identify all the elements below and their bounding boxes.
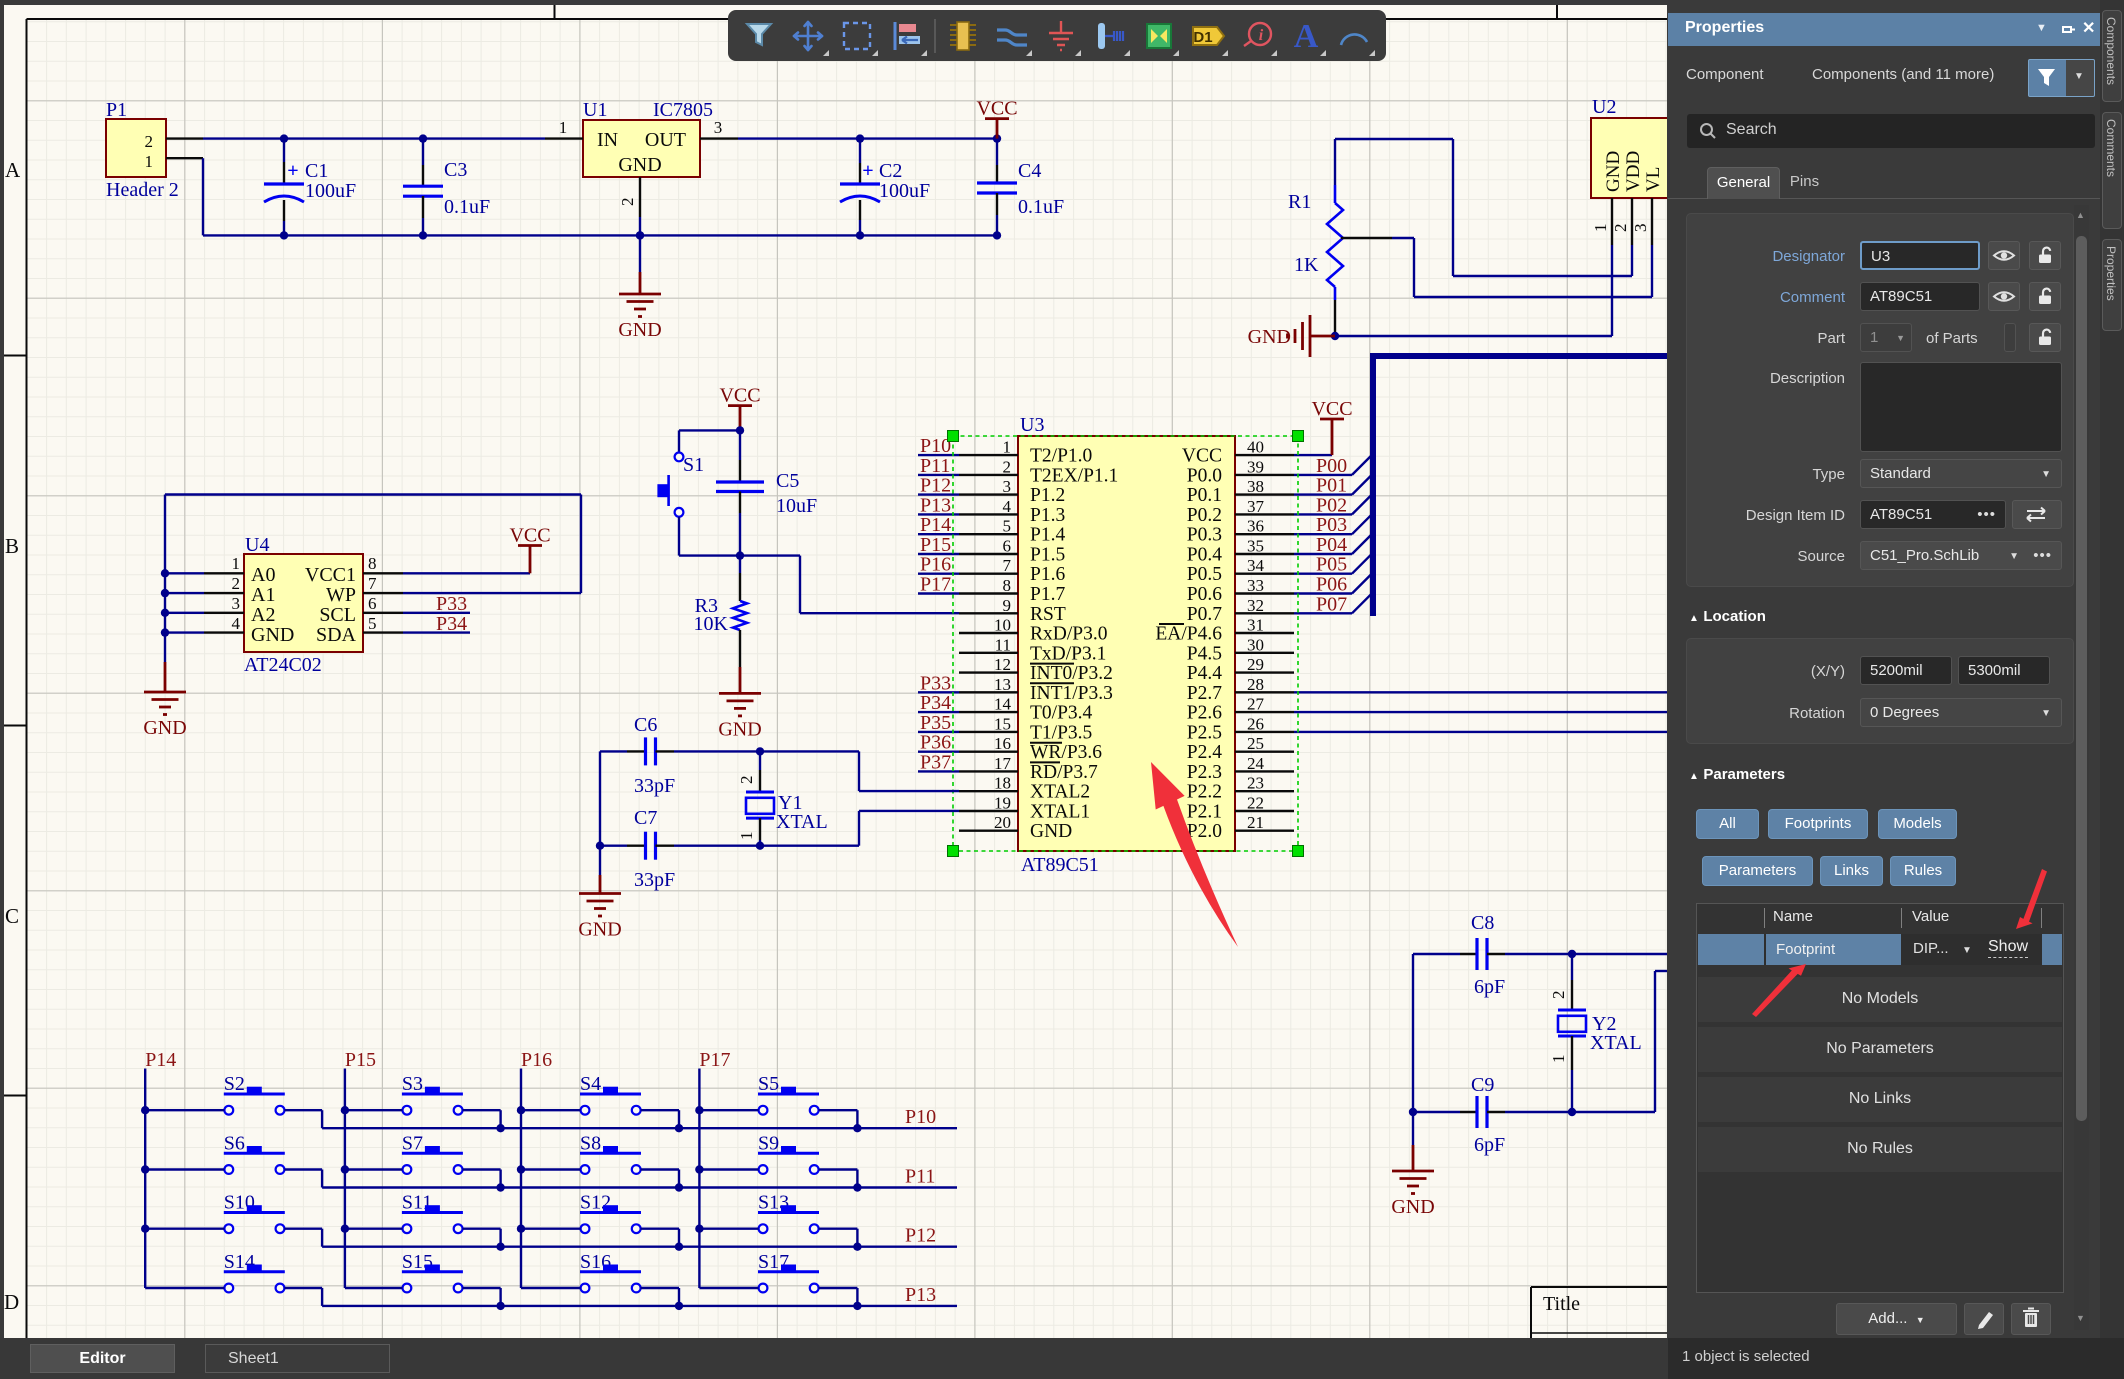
svg-text:2: 2 [1003, 457, 1012, 476]
svg-text:P2.1: P2.1 [1187, 802, 1222, 823]
svg-text:Title: Title [1543, 1293, 1580, 1315]
node S1/C5/R3 [736, 551, 744, 559]
svg-text:GND: GND [618, 319, 661, 341]
capacitor C6 [600, 714, 760, 797]
svg-text:VCC: VCC [1182, 446, 1222, 467]
svg-text:1: 1 [737, 832, 756, 841]
pin 2 of U1 [618, 177, 644, 240]
svg-text:25: 25 [1247, 734, 1264, 753]
svg-text:IN: IN [597, 129, 618, 151]
svg-text:P2.3: P2.3 [1187, 762, 1222, 783]
svg-text:P4.4: P4.4 [1187, 663, 1222, 684]
svg-text:33pF: 33pF [634, 775, 675, 797]
column wire net P16 [517, 1049, 552, 1288]
svg-text:1: 1 [232, 554, 241, 573]
row wire net P12 [322, 1225, 957, 1251]
switch S5 [699, 1073, 857, 1128]
svg-text:P15: P15 [920, 534, 951, 556]
capacitor C3 [403, 134, 490, 239]
wire P2.7 [1294, 691, 1667, 693]
row wire net P10 [322, 1106, 957, 1132]
svg-text:P13: P13 [920, 494, 951, 516]
svg-text:1K: 1K [1294, 254, 1319, 276]
svg-text:C7: C7 [634, 807, 657, 829]
svg-text:P36: P36 [920, 732, 951, 754]
svg-text:P10: P10 [920, 435, 951, 457]
svg-text:A2: A2 [251, 604, 275, 626]
svg-text:3: 3 [232, 594, 241, 613]
svg-text:6: 6 [368, 594, 377, 613]
svg-text:A1: A1 [251, 584, 275, 606]
svg-text:i: i [1258, 27, 1263, 44]
power port VCC at U3 pin40 [1294, 398, 1353, 455]
svg-text:U1: U1 [583, 99, 607, 121]
IC U3 AT89C51 body [1018, 414, 1235, 876]
svg-text:100uF: 100uF [879, 180, 930, 202]
svg-text:U2: U2 [1592, 96, 1616, 118]
svg-text:XTAL: XTAL [1590, 1032, 1642, 1054]
ground at R1 [1248, 315, 1340, 357]
ground below U4 [143, 662, 186, 739]
svg-text:T2EX/P1.1: T2EX/P1.1 [1030, 465, 1118, 486]
wire U4 address pins to ground [161, 495, 204, 663]
resistor R1 (rheostat) [1288, 139, 1343, 336]
ground below R3 [718, 693, 761, 740]
pin 2 of U2 [1611, 198, 1632, 245]
net label P34 wire [403, 613, 470, 635]
svg-text:VCC: VCC [976, 98, 1017, 120]
svg-text:GND: GND [1248, 326, 1291, 348]
switch S10 [145, 1192, 322, 1247]
svg-text:S1: S1 [683, 454, 704, 476]
svg-text:1: 1 [145, 152, 154, 171]
wire Y1 bottom to XTAL1 [760, 811, 959, 846]
svg-text:21: 21 [1247, 813, 1264, 832]
wire U1 OUT to VCC [738, 137, 997, 139]
switch S12 [521, 1192, 679, 1247]
switch S9 [699, 1133, 857, 1188]
svg-text:P17: P17 [699, 1049, 730, 1071]
svg-text:P14: P14 [920, 514, 951, 536]
svg-text:14: 14 [994, 695, 1012, 714]
svg-text:37: 37 [1247, 497, 1265, 516]
svg-text:S8: S8 [580, 1133, 601, 1155]
svg-text:C1: C1 [305, 160, 328, 182]
wire C8/C9 to ground [1409, 954, 1417, 1171]
switch S16 [521, 1251, 679, 1306]
switch S1 [657, 430, 740, 555]
switch S7 [345, 1133, 501, 1188]
svg-text:SDA: SDA [316, 624, 357, 646]
crystal Y1 [737, 747, 828, 850]
svg-text:8: 8 [368, 554, 377, 573]
svg-text:B: B [5, 534, 19, 558]
red annotation arrow at U3 [1151, 762, 1238, 947]
svg-text:A: A [1293, 18, 1318, 55]
svg-text:6pF: 6pF [1474, 976, 1505, 998]
svg-text:3: 3 [1003, 477, 1012, 496]
svg-text:C9: C9 [1471, 1074, 1494, 1096]
svg-text:P2.4: P2.4 [1187, 742, 1222, 763]
svg-text:P11: P11 [905, 1166, 935, 1188]
svg-text:P16: P16 [920, 554, 951, 576]
wire VCC to S1 [679, 426, 744, 434]
svg-text:35: 35 [1247, 537, 1264, 556]
svg-text:22: 22 [1247, 794, 1264, 813]
svg-text:P0.7: P0.7 [1187, 604, 1222, 625]
capacitor C5 [716, 430, 817, 555]
svg-text:1: 1 [559, 118, 568, 137]
power port VCC at U1 output [976, 98, 1017, 139]
svg-text:29: 29 [1247, 655, 1264, 674]
svg-text:OUT: OUT [645, 129, 686, 151]
svg-text:P33: P33 [920, 672, 951, 694]
svg-text:7: 7 [368, 574, 377, 593]
pin 3 of U1 [700, 118, 738, 139]
capacitor C8 [1413, 912, 1667, 998]
svg-text:TxD/P3.1: TxD/P3.1 [1030, 643, 1106, 664]
svg-text:6: 6 [1003, 537, 1012, 556]
svg-text:P1.4: P1.4 [1030, 525, 1065, 546]
voltage regulator U1 IC7805 [583, 99, 713, 177]
svg-text:20: 20 [994, 813, 1011, 832]
svg-text:VL: VL [1643, 167, 1664, 192]
svg-text:R1: R1 [1288, 191, 1311, 213]
svg-text:RST: RST [1030, 604, 1066, 625]
svg-text:15: 15 [994, 714, 1011, 733]
svg-text:P1.6: P1.6 [1030, 564, 1065, 585]
svg-text:P15: P15 [345, 1049, 376, 1071]
svg-text:VCC: VCC [509, 525, 550, 547]
wire R1 top to U2 VDD [1335, 139, 1632, 276]
svg-text:RxD/P3.0: RxD/P3.0 [1030, 624, 1107, 645]
column wire net P15 [341, 1049, 376, 1288]
svg-text:INT0/P3.2: INT0/P3.2 [1030, 663, 1113, 684]
svg-text:40: 40 [1247, 438, 1264, 457]
wire Y2 right riser [1655, 971, 1667, 1112]
svg-text:P17: P17 [920, 574, 951, 596]
svg-text:1: 1 [1591, 224, 1610, 233]
svg-text:T0/P3.4: T0/P3.4 [1030, 703, 1093, 724]
svg-text:VDD: VDD [1623, 151, 1644, 192]
wire Y1 top to XTAL2 [760, 751, 959, 791]
svg-text:A0: A0 [251, 564, 275, 586]
pins right of U4 [363, 554, 403, 633]
svg-text:2: 2 [1611, 224, 1630, 233]
svg-text:GND: GND [1603, 151, 1624, 192]
left pins 1-20 of U3 [959, 438, 1118, 843]
svg-text:26: 26 [1247, 714, 1264, 733]
capacitor C9 [1413, 1074, 1655, 1156]
svg-text:P11: P11 [920, 455, 950, 477]
svg-text:P2.5: P2.5 [1187, 722, 1222, 743]
svg-text:IC7805: IC7805 [653, 99, 713, 121]
crystal Y2 [1549, 950, 1642, 1116]
svg-text:P00: P00 [1316, 455, 1347, 477]
svg-text:AT24C02: AT24C02 [244, 654, 322, 676]
capacitor C2 [840, 134, 930, 239]
svg-text:C8: C8 [1471, 912, 1494, 934]
svg-text:P14: P14 [145, 1049, 176, 1071]
svg-text:SCL: SCL [319, 604, 356, 626]
svg-text:WR/P3.6: WR/P3.6 [1030, 742, 1102, 763]
svg-text:C: C [5, 904, 19, 928]
svg-text:P01: P01 [1316, 475, 1347, 497]
wire WP loop [165, 495, 581, 594]
wire R1 wiper to U2 VL [1341, 238, 1652, 297]
pin 1 of P1 [166, 157, 203, 159]
svg-text:P0.3: P0.3 [1187, 525, 1222, 546]
svg-text:27: 27 [1247, 695, 1265, 714]
power port VCC at U4 [403, 525, 551, 574]
svg-text:P37: P37 [920, 751, 951, 773]
svg-text:10: 10 [994, 616, 1011, 635]
svg-text:2: 2 [737, 776, 756, 785]
svg-text:AT89C51: AT89C51 [1021, 854, 1099, 876]
IC U2 [1591, 96, 1686, 198]
pin 3 of U2 [1631, 198, 1652, 245]
wire U2 pin4 [1669, 245, 1671, 258]
svg-text:GND: GND [718, 718, 761, 740]
svg-text:12: 12 [994, 655, 1011, 674]
row wire net P11 [322, 1166, 957, 1192]
svg-text:T2/P1.0: T2/P1.0 [1030, 446, 1092, 467]
capacitor C7 [600, 807, 760, 891]
svg-text:28: 28 [1247, 675, 1264, 694]
svg-text:+: + [287, 160, 298, 182]
svg-text:30: 30 [1247, 635, 1264, 654]
svg-text:P1.7: P1.7 [1030, 584, 1065, 605]
svg-text:P02: P02 [1316, 494, 1347, 516]
svg-text:S6: S6 [224, 1133, 245, 1155]
row wire net P13 [322, 1284, 957, 1310]
wire to RST pin [740, 556, 959, 614]
switch S4 [521, 1073, 679, 1128]
capacitor C1 [264, 134, 356, 239]
svg-text:XTAL1: XTAL1 [1030, 802, 1090, 823]
pin 4 of U2 [1669, 198, 1671, 245]
svg-text:GND: GND [1030, 821, 1072, 842]
svg-text:1: 1 [1003, 438, 1012, 457]
svg-text:WP: WP [326, 584, 356, 606]
svg-text:GND: GND [251, 624, 294, 646]
svg-text:P34: P34 [920, 692, 951, 714]
net labels P10-P17 [918, 435, 959, 595]
svg-text:18: 18 [994, 774, 1011, 793]
svg-text:P2.7: P2.7 [1187, 683, 1222, 704]
svg-text:A: A [5, 158, 21, 182]
svg-text:2: 2 [232, 574, 241, 593]
svg-text:P1.3: P1.3 [1030, 505, 1065, 526]
svg-text:5: 5 [1003, 517, 1012, 536]
svg-text:P12: P12 [920, 475, 951, 497]
svg-text:33pF: 33pF [634, 869, 675, 891]
svg-text:P2.6: P2.6 [1187, 703, 1222, 724]
svg-text:2: 2 [1549, 991, 1568, 1000]
svg-text:C4: C4 [1018, 160, 1041, 182]
svg-text:P12: P12 [905, 1225, 936, 1247]
pins left of U4 [204, 554, 244, 633]
svg-text:XTAL: XTAL [776, 811, 828, 833]
svg-text:32: 32 [1247, 596, 1264, 615]
pin 2 of P1 [166, 137, 203, 139]
wire P1.2 to U1 IN [203, 137, 545, 139]
switch S2 [145, 1073, 322, 1128]
svg-text:2: 2 [145, 132, 154, 151]
svg-text:11: 11 [995, 635, 1011, 654]
selection highlight of U3 [948, 431, 1304, 857]
svg-text:S3: S3 [402, 1073, 423, 1095]
svg-text:INT1/P3.3: INT1/P3.3 [1030, 683, 1113, 704]
svg-text:P0.1: P0.1 [1187, 485, 1222, 506]
svg-text:XTAL2: XTAL2 [1030, 782, 1090, 803]
switch S3 [345, 1073, 501, 1128]
svg-text:0.1uF: 0.1uF [1018, 196, 1064, 218]
svg-text:VCC1: VCC1 [305, 564, 356, 586]
svg-text:P0.2: P0.2 [1187, 505, 1222, 526]
svg-text:D: D [4, 1290, 19, 1314]
column wire net P14 [141, 1049, 176, 1288]
title block [1531, 1287, 1667, 1338]
svg-text:10uF: 10uF [776, 495, 817, 517]
svg-text:D1: D1 [1193, 29, 1212, 46]
svg-text:GND: GND [143, 717, 186, 739]
svg-text:36: 36 [1247, 517, 1264, 536]
svg-text:3: 3 [714, 118, 723, 137]
switch S13 [699, 1192, 857, 1247]
red arrow pointing at Show link [2016, 869, 2047, 929]
svg-text:24: 24 [1247, 754, 1265, 773]
svg-text:VCC: VCC [1311, 398, 1352, 420]
svg-text:P0.5: P0.5 [1187, 564, 1222, 585]
svg-text:P06: P06 [1316, 574, 1347, 596]
ground below C7 [578, 894, 621, 941]
svg-text:6pF: 6pF [1474, 1134, 1505, 1156]
svg-text:S9: S9 [758, 1133, 779, 1155]
svg-text:GND: GND [1391, 1196, 1434, 1218]
svg-text:100uF: 100uF [305, 180, 356, 202]
svg-text:U4: U4 [245, 534, 269, 556]
EEPROM U4 AT24C02 [244, 534, 363, 676]
svg-text:P04: P04 [1316, 534, 1347, 556]
svg-text:P2.2: P2.2 [1187, 782, 1222, 803]
column wire net P17 [695, 1049, 730, 1288]
svg-text:P34: P34 [436, 613, 467, 635]
svg-text:S5: S5 [758, 1073, 779, 1095]
svg-text:4: 4 [1003, 497, 1012, 516]
svg-text:T1/P3.5: T1/P3.5 [1030, 722, 1092, 743]
svg-text:19: 19 [994, 794, 1011, 813]
svg-text:S4: S4 [580, 1073, 601, 1095]
net label P33 wire [403, 593, 470, 615]
svg-text:33: 33 [1247, 576, 1264, 595]
svg-text:C5: C5 [776, 470, 799, 492]
net labels P33-P37 [918, 672, 959, 773]
svg-text:23: 23 [1247, 774, 1264, 793]
switch S11 [345, 1192, 501, 1247]
svg-text:P35: P35 [920, 712, 951, 734]
switch S15 [345, 1251, 501, 1306]
ground below C9 [1391, 1171, 1434, 1218]
svg-text:C6: C6 [634, 714, 657, 736]
power port VCC above S1 [719, 385, 760, 431]
svg-text:38: 38 [1247, 477, 1264, 496]
svg-text:P1: P1 [106, 99, 127, 121]
svg-text:2: 2 [618, 198, 637, 207]
svg-text:P03: P03 [1316, 514, 1347, 536]
svg-text:1: 1 [1549, 1055, 1568, 1064]
svg-text:17: 17 [994, 754, 1012, 773]
svg-text:P4.5: P4.5 [1187, 643, 1222, 664]
svg-text:EA/P4.6: EA/P4.6 [1155, 624, 1222, 645]
svg-text:P10: P10 [905, 1106, 936, 1128]
svg-text:10K: 10K [694, 613, 729, 635]
svg-text:P07: P07 [1316, 593, 1347, 615]
svg-text:P2.0: P2.0 [1187, 821, 1222, 842]
bus P00-P07 [1373, 353, 1667, 616]
svg-text:34: 34 [1247, 556, 1265, 575]
pin 1 of U2 [1591, 198, 1612, 245]
svg-text:P13: P13 [905, 1284, 936, 1306]
right pins 40-21 of U3 [1155, 438, 1294, 843]
switch S6 [145, 1133, 322, 1188]
svg-text:0.1uF: 0.1uF [444, 196, 490, 218]
resistor R3 [694, 556, 747, 694]
svg-text:S7: S7 [402, 1133, 423, 1155]
net labels P00-P07 into bus [1294, 454, 1373, 615]
svg-text:+: + [862, 160, 873, 182]
svg-text:9: 9 [1003, 596, 1012, 615]
switch S8 [521, 1133, 679, 1188]
svg-text:P1.2: P1.2 [1030, 485, 1065, 506]
pin 1 of U1 [545, 118, 583, 139]
svg-text:P0.0: P0.0 [1187, 465, 1222, 486]
svg-text:4: 4 [232, 614, 241, 633]
svg-text:RD/P3.7: RD/P3.7 [1030, 762, 1098, 783]
svg-text:13: 13 [994, 675, 1011, 694]
svg-text:GND: GND [618, 154, 661, 176]
svg-text:39: 39 [1247, 457, 1264, 476]
capacitor C4 [977, 134, 1064, 239]
switch S14 [145, 1251, 322, 1306]
svg-text:P33: P33 [436, 593, 467, 615]
overlines on U3 active-low pins [1030, 624, 1184, 762]
svg-text:U3: U3 [1020, 414, 1044, 436]
svg-text:P0.4: P0.4 [1187, 545, 1222, 566]
svg-text:C2: C2 [879, 160, 902, 182]
svg-text:VCC: VCC [719, 385, 760, 407]
ground below U1 [618, 231, 661, 341]
wire C6/C7 to ground [596, 751, 604, 893]
connector P1 [106, 99, 179, 201]
svg-text:GND: GND [578, 919, 621, 941]
switch S17 [699, 1251, 857, 1306]
svg-text:5: 5 [368, 614, 377, 633]
svg-text:P0.6: P0.6 [1187, 584, 1222, 605]
svg-text:8: 8 [1003, 576, 1012, 595]
wire P1.1 to ground rail [203, 158, 997, 235]
red arrow pointing at Footprint row [1752, 964, 1806, 1017]
svg-text:C3: C3 [444, 159, 467, 181]
svg-text:Header 2: Header 2 [106, 179, 179, 201]
svg-text:16: 16 [994, 734, 1011, 753]
svg-text:S2: S2 [224, 1073, 245, 1095]
svg-text:7: 7 [1003, 556, 1012, 575]
svg-text:3: 3 [1631, 224, 1650, 233]
svg-text:P1.5: P1.5 [1030, 545, 1065, 566]
wire U2 GND to ground [1335, 245, 1612, 336]
svg-text:31: 31 [1247, 616, 1264, 635]
